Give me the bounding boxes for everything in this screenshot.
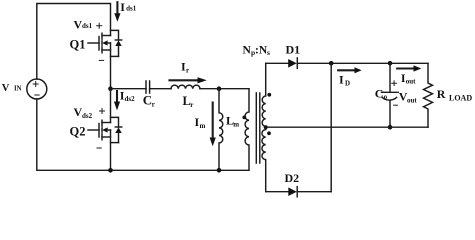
Vds1 minus mark: [99, 59, 103, 61]
svg-text:D: D: [345, 79, 350, 87]
svg-text:r: r: [190, 101, 193, 109]
transformer secondary bottom winding: [262, 130, 266, 192]
label Co: [375, 86, 388, 101]
node Q2 source on bottom rail: [108, 168, 113, 173]
svg-text:D1: D1: [286, 42, 301, 56]
wire Q2 diode branch bottom: [111, 142, 119, 144]
svg-text:R: R: [437, 87, 446, 101]
wire VIN top to Q1 drain (top rail): [37, 4, 111, 80]
voltage source VIN circle: [27, 79, 47, 99]
node center tap: [264, 125, 268, 129]
transformer primary polarity dot: [242, 116, 246, 120]
label Vds2: [74, 105, 93, 120]
wire Q1 diode branch top: [111, 30, 119, 40]
svg-text:IN: IN: [14, 86, 22, 93]
Co plus mark: [392, 81, 397, 86]
wire D2 riser: [330, 63, 332, 191]
transformer core lines: [256, 93, 260, 163]
capacitor Co: [389, 63, 391, 92]
svg-text:I: I: [339, 72, 344, 86]
VIN minus mark: [35, 94, 39, 96]
transistor Q2 drain lead: [102, 122, 111, 124]
svg-text:I: I: [120, 0, 125, 14]
wire midpoint to Cr: [111, 88, 147, 90]
transistor Q2 gate bar: [98, 124, 100, 138]
svg-text:m: m: [233, 120, 239, 128]
wire D2 to riser: [297, 191, 331, 193]
current arrow Ir: [170, 79, 199, 81]
current arrow ID: [338, 69, 355, 71]
svg-text:ds2: ds2: [125, 95, 136, 103]
label Vout: [399, 90, 418, 105]
svg-text:o: o: [384, 93, 388, 101]
label Q1: [70, 38, 86, 52]
node D2 riser on top rail: [329, 61, 334, 66]
svg-text:C: C: [375, 86, 384, 100]
wire Cr to Lr: [150, 88, 171, 90]
svg-text::N: :N: [255, 44, 268, 56]
transformer secondary top polarity dot: [267, 93, 271, 97]
wire secondary bottom to D2: [266, 191, 288, 193]
transformer secondary bottom polarity dot: [267, 131, 271, 135]
Vds2 minus mark: [97, 147, 101, 149]
body diode Q2: [115, 126, 121, 128]
VIN plus mark: [33, 82, 38, 87]
svg-text:r: r: [152, 101, 155, 109]
label ID: [339, 72, 350, 87]
svg-text:out: out: [407, 97, 417, 105]
svg-text:ds1: ds1: [82, 22, 93, 30]
wire D1 to output top rail: [297, 62, 428, 64]
transistor Q2 source lead: [102, 136, 111, 138]
label Np:Ns: [243, 44, 271, 57]
node Lm bottom on rail: [217, 168, 222, 173]
transistor Q1 gate lead: [88, 42, 99, 44]
transistor Q2 channel segments: [101, 120, 103, 140]
diode D1: [288, 59, 297, 68]
node Co top on rail: [388, 61, 393, 66]
label Lm: [226, 113, 239, 128]
svg-text:out: out: [406, 77, 416, 85]
svg-text:D2: D2: [285, 171, 300, 185]
node midpoint (half-bridge output): [108, 86, 113, 91]
node Co bottom on rail: [388, 125, 393, 130]
label Vds1: [74, 17, 93, 31]
svg-text:LOAD: LOAD: [449, 94, 472, 103]
label Cr: [143, 93, 155, 109]
wire VIN bottom to bottom rail: [37, 99, 249, 170]
svg-text:C: C: [143, 93, 152, 108]
wire secondary top to D1: [266, 62, 289, 64]
transistor Q1 channel segments: [101, 33, 103, 53]
transformer primary winding: [245, 89, 249, 171]
inductor Lr: [171, 85, 200, 89]
wire Q2 drain riser from midpoint: [110, 89, 112, 123]
label Lr: [183, 94, 194, 109]
wire center tap to load bottom (output return rail): [266, 126, 428, 128]
inductor Lm: [219, 89, 223, 171]
transistor Q1 drain lead: [102, 35, 111, 37]
capacitor Cr: [146, 81, 150, 93]
transistor Q1 body arrow: [102, 40, 107, 45]
svg-text:r: r: [186, 67, 189, 75]
transistor Q2 gate lead: [88, 129, 99, 131]
wire Q1 diode branch bottom: [111, 55, 119, 57]
Vds1 plus mark: [97, 23, 102, 28]
current arrow Iout: [397, 67, 414, 69]
current arrow Im: [212, 103, 214, 139]
wire Q2 source riser to bottom rail: [110, 130, 112, 170]
label Ids2: [120, 89, 135, 103]
transistor Q2 body arrow: [102, 127, 107, 132]
svg-text:ds1: ds1: [126, 5, 137, 13]
svg-text:s: s: [267, 48, 270, 57]
diode D2: [288, 187, 296, 196]
Vds2 plus mark: [100, 109, 105, 114]
label D1: [286, 42, 301, 56]
label Ir: [181, 60, 189, 75]
wire Q2 diode branch top: [111, 117, 119, 127]
svg-text:ds2: ds2: [82, 112, 93, 120]
label Ids1: [120, 0, 136, 14]
body diode Q1: [115, 39, 121, 41]
label V IN: [2, 83, 22, 94]
label D2: [285, 171, 300, 185]
transistor Q1 gate bar: [98, 37, 100, 51]
current arrow Ids2: [116, 91, 118, 102]
resistor R LOAD: [424, 63, 433, 127]
wire Q1 source riser to midpoint: [110, 43, 112, 89]
node Lm top junction: [217, 86, 222, 91]
svg-text:m: m: [200, 122, 206, 130]
label Im: [195, 115, 206, 130]
svg-text:Q2: Q2: [70, 125, 86, 139]
svg-text:Q1: Q1: [70, 38, 86, 52]
transistor Q1 source lead: [102, 49, 111, 51]
label Q2: [70, 125, 86, 139]
svg-text:V: V: [2, 83, 10, 94]
label R LOAD: [437, 87, 473, 103]
Co minus mark: [394, 104, 398, 106]
current arrow Ids1: [116, 2, 118, 14]
wire Lr to primary corner: [200, 88, 249, 90]
transformer secondary top winding: [262, 63, 266, 126]
label Iout: [401, 71, 416, 85]
